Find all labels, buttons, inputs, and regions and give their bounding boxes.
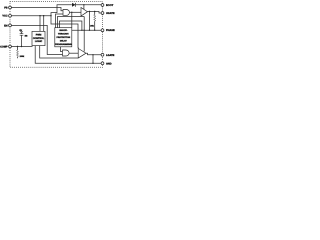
wire x84.2 down to lower driver [83, 17, 85, 52]
wire VCC branch to PWM logic [39, 16, 41, 32]
node gate output feedback [71, 12, 72, 13]
node VCC junctions [39, 15, 40, 16]
wire protection sense y21 [60, 21, 82, 30]
node LGATE pulldown [92, 54, 93, 55]
wire UGATE to phase [89, 12, 91, 31]
svg-text:CONTROL: CONTROL [33, 37, 45, 40]
wire PWM logic to driver return [40, 46, 78, 58]
svg-text:BOOT: BOOT [106, 4, 114, 7]
svg-text:PROTECTION: PROTECTION [56, 36, 70, 39]
block U2 shoot-through protection [55, 28, 72, 47]
wire GND net [35, 46, 101, 64]
node COMP resistor tap [17, 46, 18, 47]
node resistor tap [94, 11, 95, 12]
capacitor C1 [20, 32, 24, 47]
svg-text:THROUGH: THROUGH [58, 33, 69, 36]
svg-text:LOGIC: LOGIC [35, 40, 43, 43]
wire protection sense y16.5 [58, 17, 85, 28]
wire gate G1 lower input from protection block [56, 14, 61, 28]
pin LGATE [101, 53, 115, 56]
node BOOT to driver [83, 4, 84, 5]
resistor R2 soft-start [17, 47, 19, 59]
svg-text:PWM: PWM [36, 34, 42, 37]
wire gate G2 output to driver [69, 52, 78, 54]
pin FB [4, 6, 11, 9]
wire LGATE output [86, 53, 101, 55]
wire UGATE output [88, 12, 102, 14]
node UGATE r1 tap [89, 11, 90, 12]
wire VCC riser to BOOT diode [51, 5, 72, 16]
svg-text:DELAY: DELAY [60, 39, 67, 42]
gate G1 (AND) [61, 10, 70, 16]
svg-text:SHOOT-: SHOOT- [59, 29, 67, 32]
wire EN net [12, 25, 63, 54]
wire gate G1 output to driver [70, 11, 82, 13]
pin UGATE [101, 12, 115, 15]
op-amp U3 upper gate driver [81, 8, 88, 17]
resistor R1 UGATE-PHASE [94, 12, 96, 31]
wire BOOT to upper driver top [83, 5, 85, 10]
wire feedback into protection block [71, 12, 73, 27]
pin GND [101, 62, 112, 65]
svg-text:FB: FB [4, 7, 8, 10]
svg-text:PHASE: PHASE [106, 29, 115, 32]
IC package dashed border [10, 2, 103, 68]
svg-text:UGATE: UGATE [106, 12, 115, 15]
pin EN [4, 24, 11, 27]
op-amp U4 lower gate driver [78, 48, 86, 58]
svg-text:COMP: COMP [0, 46, 8, 49]
pin VCC [2, 14, 11, 17]
diode D1 [72, 3, 101, 7]
svg-text:LGATE: LGATE [106, 54, 115, 57]
wire LGATE to GND [92, 55, 94, 64]
wire PHASE net [72, 29, 101, 31]
svg-text:PROGRAMMING: PROGRAMMING [55, 43, 72, 46]
pin PHASE [101, 29, 115, 32]
wire FB net [12, 8, 64, 11]
block U1 PWM CONTROL LOGIC [32, 31, 45, 45]
wire gate G2 upper input from protection block [61, 47, 63, 52]
svg-text:GND: GND [106, 62, 112, 65]
gate G2 (AND) [63, 50, 70, 56]
pin BOOT [101, 4, 114, 7]
wire VCC net [12, 15, 52, 17]
svg-text:VCC: VCC [2, 15, 7, 18]
wire VCC to low-side driver supply [51, 16, 78, 49]
svg-text:EN: EN [4, 24, 8, 27]
node COMP cap tap [21, 46, 22, 47]
node PHASE junctions [81, 30, 82, 31]
wire COMP net [12, 46, 33, 48]
pin COMP [0, 45, 11, 48]
